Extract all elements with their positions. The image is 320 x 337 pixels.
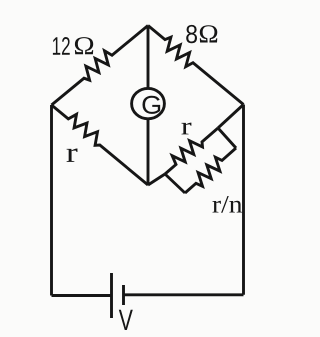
resistor R4 r (upper parallel branch) — [165, 128, 218, 174]
wire right vertex down to bottom rail — [242, 105, 245, 295]
galvanometer U1 circle — [132, 88, 165, 118]
wire left vertex down to bottom rail — [50, 105, 53, 296]
resistor R1 12 ohm (top-left bridge arm) — [52, 26, 149, 106]
battery label V — [119, 310, 133, 330]
value label 12 ohm — [53, 37, 93, 55]
wire galvanometer to bottom vertex — [147, 119, 150, 185]
wire parallel combo right side — [218, 128, 236, 148]
battery V short plate — [122, 285, 125, 305]
value label r/n (lower parallel branch) — [213, 196, 243, 213]
resistor R3 r (bottom-left bridge arm) — [52, 105, 149, 185]
wire parallel combo top corner to right vertex — [218, 105, 244, 129]
wire bottom rail left of battery — [52, 294, 112, 297]
resistor R2 8 ohm (top-right bridge arm) — [148, 26, 244, 105]
wire parallel combo left side — [165, 174, 185, 193]
galvanometer label G — [142, 96, 160, 114]
wire bottom rail right of battery — [124, 293, 244, 296]
value label r (upper parallel branch) — [182, 123, 192, 135]
value label 8 ohm — [186, 25, 217, 43]
battery V long plate — [110, 273, 113, 318]
wire bottom vertex to parallel combo left corner — [148, 174, 165, 185]
wire top vertex to galvanometer — [147, 26, 150, 89]
resistor R5 r/n (lower parallel branch) — [185, 148, 236, 193]
value label r (bottom-left arm) — [67, 148, 78, 161]
